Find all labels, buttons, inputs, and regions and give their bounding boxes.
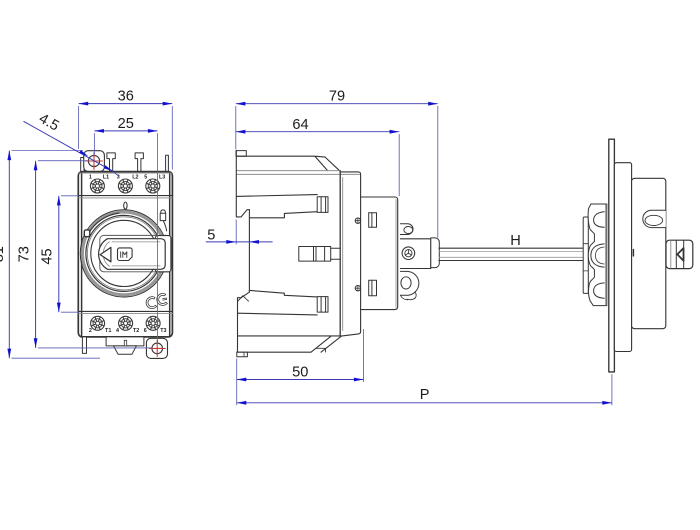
ext line dim 64 right [398, 134, 400, 196]
flange screw bottom [355, 286, 360, 291]
DIN claw bottom [369, 280, 377, 296]
logo plate on handle [118, 248, 133, 261]
position 0 marker [124, 202, 127, 209]
arrows dim 36 [79, 102, 89, 106]
dim line 64 [236, 131, 399, 133]
terminal screw 1/L1 [90, 179, 104, 193]
dim line 73 [35, 161, 37, 348]
svg-text:L1: L1 [103, 175, 109, 181]
arrows dim 79 [236, 102, 246, 106]
door panel [609, 139, 615, 372]
ext lines dim 25 [93, 133, 95, 155]
bottom foot [237, 352, 248, 357]
upper latch box [317, 197, 328, 213]
arrows dim 5 (outside) [226, 240, 236, 244]
bottom foot left [82, 337, 86, 354]
arrows dim 81 [7, 151, 11, 161]
terminal screw T1 top [107, 153, 115, 172]
bottom center tab [106, 337, 144, 354]
lower latch box [317, 297, 328, 313]
svg-text:64: 64 [292, 117, 308, 133]
mounting lug top-left [84, 151, 105, 172]
shaft clamp block [400, 238, 439, 269]
ext lines dim 81 [12, 150, 84, 152]
ext line dim 50 right [363, 329, 365, 382]
DIN claw top [369, 213, 377, 228]
cam hub bar [583, 217, 588, 293]
body horizontal separators [78, 172, 172, 174]
bezel tab left [84, 230, 89, 237]
ext line dim 79 right [437, 106, 439, 238]
rear flange [340, 172, 360, 336]
flange screw top [355, 218, 360, 223]
arrows dim 73 [34, 161, 38, 171]
handle end block [155, 236, 171, 272]
body inner side lines [81, 173, 83, 337]
small zigzag lower front [238, 296, 249, 302]
ext lines dim 79 and 64 left [235, 106, 237, 149]
recessed face vertical [248, 210, 250, 292]
handle base plate [614, 163, 631, 352]
ext lines dim 45 [61, 195, 78, 197]
terminal screw 5/L3 [146, 179, 160, 193]
arrows dim 64 [236, 130, 246, 134]
svg-text:79: 79 [329, 89, 345, 105]
padlock tab right [160, 210, 166, 231]
inner rim arc top-left [89, 213, 119, 233]
upper gray lines [236, 170, 339, 172]
top edge + chamfer [236, 156, 339, 171]
knob face circle [91, 220, 157, 286]
leader 4.5 [24, 121, 113, 171]
svg-text:T2: T2 [133, 328, 139, 334]
svg-text:L2: L2 [132, 175, 138, 181]
knob [666, 240, 693, 268]
svg-text:6: 6 [144, 328, 147, 334]
knob hatched grip ring [83, 212, 166, 295]
ext lines dim 73 [38, 160, 88, 162]
svg-text:73: 73 [16, 246, 32, 262]
dim line 25 [94, 130, 157, 132]
body outline [78, 172, 172, 337]
cam disc scalloped [588, 204, 607, 306]
svg-text:H: H [510, 233, 521, 249]
knob bezel circle [86, 215, 162, 291]
svg-text:81: 81 [0, 246, 7, 262]
mounting plate [361, 197, 398, 310]
terminal screw 2/T1 bottom [91, 316, 105, 330]
svg-text:2: 2 [89, 328, 92, 334]
svg-text:5: 5 [207, 227, 215, 243]
front face lower [238, 292, 250, 352]
svg-text:L3: L3 [159, 175, 165, 181]
handle body block [632, 178, 666, 328]
front face upper [236, 151, 249, 217]
top-left side post [81, 158, 84, 172]
back face [339, 171, 341, 336]
svg-text:T1: T1 [105, 328, 111, 334]
arrows dim 25 [94, 129, 104, 133]
svg-text:P: P [420, 387, 430, 403]
terminal screw T3 top [166, 155, 169, 171]
handle back plate [100, 235, 171, 271]
inner top line [236, 195, 317, 197]
clamp screw (torx) [402, 247, 415, 260]
svg-text:50: 50 [292, 364, 308, 380]
arrows dim 50 [237, 378, 247, 382]
upper step line [249, 212, 317, 218]
dim line 81 [8, 151, 10, 359]
svg-text:25: 25 [118, 116, 134, 132]
dim line 5 [206, 241, 273, 243]
terminal labels top [89, 175, 165, 181]
shaft [439, 248, 583, 260]
svg-text:5: 5 [144, 175, 147, 181]
arrows dim P [237, 401, 247, 405]
terminal labels bottom [89, 328, 167, 334]
padlock eye bottom [400, 271, 419, 300]
handle bar [99, 239, 166, 270]
terminal screw T2 top [135, 153, 143, 172]
ext line dim P right [611, 374, 613, 405]
svg-text:36: 36 [118, 89, 134, 105]
svg-text:45: 45 [39, 248, 55, 264]
pointer triangle [100, 247, 111, 261]
arrows leader 4.5 [79, 150, 88, 156]
svg-text:1: 1 [89, 175, 92, 181]
bottom band [237, 336, 342, 352]
terminal screw 6/T3 bottom [146, 316, 160, 330]
ext lines dim 36 [78, 106, 80, 149]
dim line P [237, 402, 612, 404]
dim line 36 [79, 103, 173, 105]
terminal screw 4/T2 bottom [119, 316, 133, 330]
middle shaft socket bracket [299, 247, 341, 262]
knob recess circle [80, 210, 167, 297]
dim line 50 [237, 379, 364, 381]
ext line dims 50/P left [236, 359, 238, 406]
arrows dim 45 [57, 196, 61, 206]
knob pointer triangle [677, 248, 683, 261]
interlock lever top [400, 224, 413, 235]
mounting lug bottom-right [146, 338, 167, 358]
ext line dim 5 [235, 220, 237, 245]
top tab [236, 151, 246, 157]
padlock boss on handle [643, 210, 666, 227]
dim line 79 [236, 103, 438, 105]
svg-text:4: 4 [116, 328, 119, 334]
dim line 45 [58, 196, 60, 312]
terminal screw 3/L2 [118, 179, 132, 193]
CE marking [145, 293, 168, 310]
svg-text:T3: T3 [160, 328, 166, 334]
center mark bottom hole (red) [149, 340, 165, 356]
center mark top hole (red) [86, 153, 103, 170]
lower step line [249, 290, 317, 297]
